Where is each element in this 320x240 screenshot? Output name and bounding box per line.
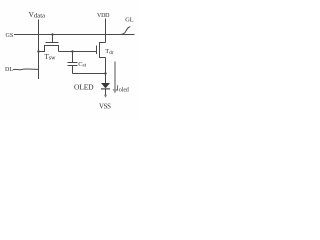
svg-text:Ioled: Ioled — [117, 85, 129, 94]
capacitor Cst top plate — [68, 62, 78, 64]
svg-text:Cst: Cst — [78, 61, 86, 69]
transistor Tsw channel — [39, 46, 59, 52]
capacitor Cst lead top — [72, 52, 74, 63]
svg-text:GL: GL — [125, 16, 134, 23]
wire Tdr source down to OLED anode — [105, 58, 107, 84]
arrow Ioled current — [114, 62, 116, 90]
svg-text:Vdata: Vdata — [29, 10, 46, 20]
label GL leader line — [121, 27, 130, 35]
wire node to gate of Tdr — [59, 51, 97, 53]
diode OLED cathode bar — [101, 88, 110, 90]
wire VDD vertical — [105, 19, 107, 43]
wire data line DL vertical — [38, 20, 40, 80]
capacitor Cst bottom plate — [68, 65, 78, 67]
svg-text:VSS: VSS — [99, 104, 111, 111]
diode OLED triangle — [101, 83, 110, 88]
transistor Tsw gate bar — [46, 42, 59, 44]
transistor Tdr channel — [100, 43, 106, 58]
svg-text:VDD: VDD — [97, 13, 110, 19]
svg-text:DL: DL — [5, 67, 13, 73]
node junction dot GS to Tsw gate — [51, 33, 53, 35]
svg-text:OLED: OLED — [74, 83, 94, 92]
node junction dot DL to Tsw source — [37, 50, 39, 52]
svg-text:Tsw: Tsw — [45, 53, 57, 62]
svg-text:GS: GS — [6, 33, 14, 39]
svg-text:Tdr: Tdr — [105, 48, 114, 56]
wire gate line GS/GL horizontal — [14, 34, 135, 36]
arrowhead to VSS — [104, 95, 107, 98]
node junction dot OLED anode node — [104, 72, 106, 74]
wire OLED cathode to VSS — [105, 89, 107, 95]
transistor Tsw gate wire — [52, 35, 54, 43]
label DL leader line — [13, 68, 39, 71]
capacitor Cst lead bottom — [72, 66, 74, 74]
wire capacitor bottom to OLED node — [73, 73, 106, 75]
node junction dot gate node to capacitor — [71, 50, 73, 52]
transistor Tdr gate bar — [96, 46, 98, 55]
